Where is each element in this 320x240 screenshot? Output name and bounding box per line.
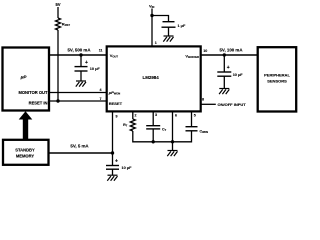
wire bus pin6 to CWDN — [173, 131, 192, 142]
svg-text:LM2984: LM2984 — [143, 75, 160, 80]
svg-text:5V, 500 mA: 5V, 500 mA — [67, 47, 91, 52]
junction dot CT-bus — [152, 140, 155, 143]
capacitor C1 10uF (output cap) — [75, 55, 101, 81]
capacitor 10uF (buffer cap) — [217, 55, 243, 89]
svg-text:10 μF: 10 μF — [233, 73, 244, 77]
svg-text:8: 8 — [202, 98, 204, 102]
wire 5V 500mA rail: uP to pin 11 VOUT — [49, 47, 107, 55]
wire RRST down to RESET line — [57, 30, 59, 101]
svg-text:1 μF: 1 μF — [178, 24, 186, 28]
resistor RRST — [56, 18, 71, 30]
wire pin 6 stub to bus — [172, 111, 174, 141]
wire pin 8 ON/OFF input — [201, 103, 216, 105]
svg-text:4: 4 — [100, 88, 102, 92]
wire RT bottom to bus — [133, 131, 153, 142]
wire VIN down to pin 1 — [151, 9, 153, 47]
svg-text:6: 6 — [175, 114, 177, 118]
junction dot pin6-bus — [171, 140, 174, 143]
ground (input cap) — [163, 36, 173, 42]
svg-text:5: 5 — [194, 114, 196, 118]
svg-text:RT: RT — [123, 123, 128, 128]
svg-text:1: 1 — [155, 41, 157, 45]
wire 5V 5mA: standby memory to pin 9 — [49, 144, 113, 154]
wire bus CT to pin6 — [153, 141, 172, 143]
svg-text:RESET IN: RESET IN — [29, 101, 48, 106]
capacitor 10uF (standby cap) — [106, 153, 132, 175]
ground (timing bus) — [167, 151, 177, 157]
wire VIN branch to input cap — [152, 16, 169, 22]
wire ground stem from bus — [172, 142, 174, 151]
junction dot on VIN — [150, 14, 153, 17]
svg-text:2: 2 — [135, 114, 137, 118]
capacitor CT — [146, 126, 166, 142]
ground (standby cap) — [107, 175, 117, 181]
svg-text:MEMORY: MEMORY — [16, 154, 35, 159]
svg-text:9: 9 — [116, 115, 118, 119]
junction dot on RESET line — [56, 99, 59, 102]
svg-text:7: 7 — [100, 97, 102, 101]
svg-text:3: 3 — [155, 113, 157, 117]
wire pin 2 stub — [132, 111, 134, 119]
wire 5V to resistor RRST — [57, 7, 59, 18]
node junction on 500mA rail — [79, 53, 82, 56]
svg-text:ON/OFF INPUT: ON/OFF INPUT — [218, 102, 247, 107]
capacitor CWDN — [186, 127, 209, 134]
peripheral sensors box — [258, 47, 297, 111]
svg-text:SENSORS: SENSORS — [267, 79, 287, 84]
svg-text:5V: 5V — [55, 2, 60, 7]
svg-text:STANDBY: STANDBY — [15, 147, 35, 152]
svg-text:10: 10 — [203, 49, 207, 53]
svg-text:CWDN: CWDN — [200, 129, 209, 134]
svg-text:CT: CT — [162, 127, 167, 132]
node junction on 100mA rail — [223, 53, 226, 56]
svg-text:PERIPHERAL: PERIPHERAL — [264, 72, 290, 77]
svg-text:5V, 100 mA: 5V, 100 mA — [219, 48, 243, 53]
svg-text:10 μF: 10 μF — [122, 166, 133, 170]
microprocessor box uP — [3, 48, 50, 111]
arrow uP to standby memory — [19, 111, 33, 140]
resistor RT — [123, 119, 135, 131]
wire pin 9 down to standby rail — [112, 111, 114, 153]
svg-text:5V, 5 mA: 5V, 5 mA — [70, 144, 89, 149]
ground (output cap) — [76, 81, 86, 87]
standby memory box — [3, 140, 49, 165]
regulator IC U1 LM2984 box — [107, 46, 201, 111]
wire pin 3 stub — [152, 111, 154, 125]
svg-text:+: + — [115, 159, 118, 165]
wire pin 5 stub — [191, 111, 193, 126]
svg-text:μP: μP — [20, 75, 28, 80]
svg-text:+: + — [85, 60, 88, 66]
capacitor 1uF (input cap) — [162, 22, 186, 36]
ground (buffer cap) — [219, 89, 229, 95]
junction dot standby rail — [111, 151, 114, 154]
wire MONITOR OUT to pin 4 — [49, 92, 107, 94]
svg-text:11: 11 — [99, 49, 103, 53]
wire RESET IN to pin 7 — [49, 100, 107, 102]
svg-text:+: + — [227, 65, 230, 71]
svg-text:MONITOR OUT: MONITOR OUT — [18, 90, 48, 95]
svg-text:10 μF: 10 μF — [90, 67, 101, 71]
wire 5V 100mA rail: pin 10 VBUFFER to peripheral sensors — [201, 48, 258, 56]
svg-text:RESET: RESET — [109, 101, 123, 106]
